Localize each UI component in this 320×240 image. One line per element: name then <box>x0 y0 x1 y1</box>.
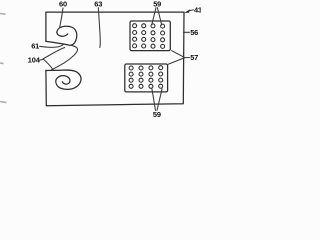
svg-text:61: 61 <box>31 42 39 51</box>
svg-text:56: 56 <box>190 28 198 37</box>
leader 57 to lower hole plate <box>168 58 185 65</box>
svg-text:43: 43 <box>194 6 201 15</box>
hole plate 59 lower <box>125 64 168 92</box>
panel 56: main rectangle outline <box>46 12 184 106</box>
svg-text:59: 59 <box>153 110 161 119</box>
leader 57 to upper hole plate <box>172 51 190 58</box>
leader dash 56 <box>184 31 190 33</box>
leader dash 104 <box>40 58 44 61</box>
svg-text:57: 57 <box>190 53 198 62</box>
svg-text:59: 59 <box>153 0 161 8</box>
holes of lower plate <box>129 66 163 89</box>
leader 59 bottom right <box>157 89 162 111</box>
leader from 63 into panel face <box>98 8 100 48</box>
leader from 60 to upper hook <box>60 8 63 28</box>
leader dash 43 <box>189 9 193 12</box>
arrowhead 43 <box>184 9 190 13</box>
leader 104 to lower hook <box>43 59 53 70</box>
leader from 61 along upper hook base <box>40 44 64 47</box>
wire: web connecting lower hook to upper hook right side <box>52 45 78 69</box>
leader 59 top left <box>152 8 156 25</box>
hole plate 59 upper <box>130 21 170 51</box>
hook 104: lower hook curl <box>46 70 81 89</box>
leader 59 bottom left <box>152 89 156 111</box>
svg-text:60: 60 <box>59 0 67 9</box>
holes of upper plate <box>133 24 165 49</box>
hook 61: upper hook curl <box>46 26 77 45</box>
svg-text:104: 104 <box>28 56 41 65</box>
leader 59 top right <box>157 8 161 25</box>
leader 104 to upper hook tip <box>43 48 65 59</box>
svg-text:63: 63 <box>94 0 102 8</box>
